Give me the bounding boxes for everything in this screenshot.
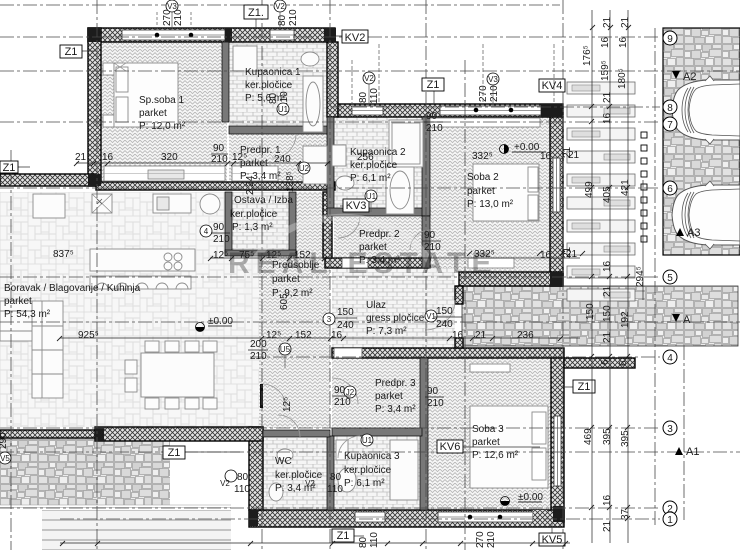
svg-text:270: 270 <box>475 531 486 548</box>
svg-text:4: 4 <box>667 353 673 364</box>
svg-text:Z1: Z1 <box>427 79 440 91</box>
svg-text:90: 90 <box>213 143 225 154</box>
svg-text:395: 395 <box>602 428 613 445</box>
svg-text:294⁵: 294⁵ <box>635 266 646 287</box>
svg-text:80: 80 <box>358 91 369 103</box>
svg-text:P: 12,6 m²: P: 12,6 m² <box>472 450 519 461</box>
svg-text:320: 320 <box>161 152 178 163</box>
svg-text:parket: parket <box>4 296 32 307</box>
svg-text:210: 210 <box>426 123 443 134</box>
svg-text:21: 21 <box>75 152 87 163</box>
svg-text:110: 110 <box>369 88 380 104</box>
svg-text:ker.pločice: ker.pločice <box>275 470 323 481</box>
svg-text:90: 90 <box>424 230 436 241</box>
svg-text:210: 210 <box>250 351 267 362</box>
svg-text:7: 7 <box>667 120 673 131</box>
svg-text:8: 8 <box>667 103 673 114</box>
svg-text:V2: V2 <box>364 74 374 83</box>
svg-text:469: 469 <box>583 428 594 445</box>
svg-text:6: 6 <box>667 184 673 195</box>
svg-text:605: 605 <box>279 293 290 310</box>
svg-text:ker.pločice: ker.pločice <box>344 465 392 476</box>
svg-text:Soba 2: Soba 2 <box>467 172 499 183</box>
svg-text:80: 80 <box>358 536 369 548</box>
svg-text:KV2: KV2 <box>345 32 366 44</box>
svg-text:6: 6 <box>618 360 629 366</box>
svg-text:152: 152 <box>295 330 312 341</box>
svg-text:16: 16 <box>602 112 613 124</box>
svg-text:3: 3 <box>667 424 673 435</box>
svg-text:12⁵: 12⁵ <box>282 397 293 412</box>
svg-text:210: 210 <box>213 234 230 245</box>
svg-text:A: A <box>683 314 691 326</box>
svg-text:837⁵: 837⁵ <box>53 249 74 260</box>
svg-text:12⁵: 12⁵ <box>266 250 281 261</box>
svg-text:Predpr. 2: Predpr. 2 <box>359 229 400 240</box>
svg-text:332⁵: 332⁵ <box>472 151 493 162</box>
svg-text:90: 90 <box>427 386 439 397</box>
svg-text:Z1: Z1 <box>578 381 591 393</box>
svg-text:A2: A2 <box>683 71 696 83</box>
svg-text:U1: U1 <box>362 436 373 445</box>
svg-text:75⁵: 75⁵ <box>239 250 254 261</box>
svg-text:80: 80 <box>237 472 249 483</box>
svg-text:240: 240 <box>436 319 453 330</box>
svg-text:80: 80 <box>277 14 288 26</box>
svg-text:240: 240 <box>274 154 291 165</box>
svg-text:21: 21 <box>602 331 613 343</box>
svg-text:270: 270 <box>478 85 489 102</box>
svg-text:+0.00: +0.00 <box>514 142 540 153</box>
svg-text:Z1: Z1 <box>168 447 181 459</box>
svg-text:5: 5 <box>667 273 673 284</box>
svg-text:±0.00: ±0.00 <box>518 492 543 503</box>
svg-text:16: 16 <box>602 494 613 506</box>
svg-text:925⁵: 925⁵ <box>78 330 99 341</box>
svg-text:90: 90 <box>426 111 438 122</box>
svg-text:P: 3,4 m²: P: 3,4 m² <box>359 255 400 266</box>
svg-text:V2: V2 <box>305 479 315 488</box>
svg-text:16: 16 <box>600 36 611 48</box>
svg-text:12⁵: 12⁵ <box>232 152 247 163</box>
svg-text:290: 290 <box>0 432 9 449</box>
svg-text:210: 210 <box>424 242 441 253</box>
svg-text:P: 13,0 m²: P: 13,0 m² <box>467 199 514 210</box>
svg-text:110: 110 <box>369 532 380 548</box>
svg-text:150: 150 <box>585 303 596 320</box>
svg-text:Predsoblje: Predsoblje <box>272 260 320 271</box>
svg-text:256: 256 <box>357 152 374 163</box>
svg-text:U1: U1 <box>278 105 289 114</box>
svg-text:Ostava / Izba: Ostava / Izba <box>234 195 293 206</box>
svg-text:P: 54,3 m²: P: 54,3 m² <box>4 309 51 320</box>
svg-text:16: 16 <box>102 152 114 163</box>
svg-text:WC: WC <box>275 456 292 467</box>
svg-text:Z1: Z1 <box>337 530 350 542</box>
svg-text:P: 1,3 m²: P: 1,3 m² <box>232 222 273 233</box>
svg-text:4: 4 <box>204 227 209 236</box>
svg-text:Kupaonica 1: Kupaonica 1 <box>245 67 301 78</box>
svg-text:16: 16 <box>540 151 552 162</box>
svg-text:V3: V3 <box>167 2 177 11</box>
svg-text:P: 12,0 m²: P: 12,0 m² <box>139 121 186 132</box>
svg-text:V5: V5 <box>0 454 10 463</box>
svg-text:150: 150 <box>602 305 613 322</box>
svg-text:V1: V1 <box>426 312 436 321</box>
svg-text:3: 3 <box>327 315 332 324</box>
svg-text:150: 150 <box>436 306 453 317</box>
svg-text:21: 21 <box>602 91 613 103</box>
svg-text:152: 152 <box>294 250 311 261</box>
svg-text:parket: parket <box>375 391 403 402</box>
svg-text:12⁵: 12⁵ <box>266 330 281 341</box>
svg-text:210: 210 <box>489 85 500 102</box>
svg-text:240: 240 <box>337 320 354 331</box>
svg-text:12⁵: 12⁵ <box>213 250 228 261</box>
svg-text:parket: parket <box>472 437 500 448</box>
svg-text:Z1.: Z1. <box>248 7 264 19</box>
svg-text:2,24: 2,24 <box>245 175 256 195</box>
svg-text:P: 7,3 m²: P: 7,3 m² <box>366 326 407 337</box>
svg-text:Kupaonica 3: Kupaonica 3 <box>344 451 400 462</box>
svg-text:21: 21 <box>602 285 613 297</box>
svg-text:80: 80 <box>330 472 342 483</box>
svg-text:2: 2 <box>667 504 673 515</box>
svg-text:A3: A3 <box>687 227 700 239</box>
svg-text:90: 90 <box>213 222 225 233</box>
svg-text:P: 3,4 m²: P: 3,4 m² <box>375 404 416 415</box>
svg-text:9: 9 <box>667 34 673 45</box>
svg-text:Z1: Z1 <box>65 46 78 58</box>
svg-text:P: 6,1 m²: P: 6,1 m² <box>350 173 391 184</box>
svg-text:395: 395 <box>620 430 631 447</box>
svg-text:16: 16 <box>331 330 343 341</box>
svg-text:210: 210 <box>486 531 497 548</box>
svg-text:KV3: KV3 <box>346 200 367 212</box>
svg-text:180⁵: 180⁵ <box>617 68 628 89</box>
svg-text:110: 110 <box>234 484 250 495</box>
svg-text:±0.00: ±0.00 <box>208 316 233 327</box>
svg-text:332⁵: 332⁵ <box>474 249 495 260</box>
svg-text:ker.pločice: ker.pločice <box>230 209 278 220</box>
svg-text:1: 1 <box>667 515 673 526</box>
svg-text:parket: parket <box>272 274 300 285</box>
svg-text:U5: U5 <box>280 345 291 354</box>
svg-text:Ulaz: Ulaz <box>366 300 386 311</box>
svg-text:V2: V2 <box>275 2 285 11</box>
svg-text:37: 37 <box>620 508 631 520</box>
svg-text:Sp.soba 1: Sp.soba 1 <box>139 95 184 106</box>
svg-text:21: 21 <box>602 520 613 532</box>
svg-text:V3: V3 <box>488 75 498 84</box>
svg-text:Predpr. 3: Predpr. 3 <box>375 378 416 389</box>
svg-text:ker.pločice: ker.pločice <box>245 80 293 91</box>
svg-text:P: 6,1 m²: P: 6,1 m² <box>344 478 385 489</box>
svg-text:421: 421 <box>620 179 631 196</box>
svg-text:110: 110 <box>327 484 343 495</box>
svg-text:parket: parket <box>359 242 387 253</box>
svg-text:6: 6 <box>600 359 611 365</box>
svg-text:200: 200 <box>250 339 267 350</box>
svg-text:Boravak / Blagovanje / Kuhinja: Boravak / Blagovanje / Kuhinja <box>4 283 141 294</box>
svg-text:parket: parket <box>467 186 495 197</box>
svg-text:210: 210 <box>334 397 351 408</box>
svg-text:A1: A1 <box>686 446 699 458</box>
svg-text:210: 210 <box>427 398 444 409</box>
svg-text:V2: V2 <box>220 479 230 488</box>
svg-text:Z1: Z1 <box>3 162 16 174</box>
svg-text:16: 16 <box>452 330 464 341</box>
svg-text:21: 21 <box>562 146 573 158</box>
svg-text:210: 210 <box>211 154 228 165</box>
svg-text:Soba 3: Soba 3 <box>472 424 504 435</box>
svg-text:16: 16 <box>618 36 629 48</box>
svg-text:gress pločice: gress pločice <box>366 313 425 324</box>
svg-text:236: 236 <box>517 330 534 341</box>
svg-text:KV6: KV6 <box>440 441 461 453</box>
svg-text:210: 210 <box>288 9 299 26</box>
svg-text:16: 16 <box>602 260 613 272</box>
svg-text:parket: parket <box>139 108 167 119</box>
svg-text:21: 21 <box>475 330 487 341</box>
svg-text:405: 405 <box>602 186 613 203</box>
svg-text:U1: U1 <box>366 192 377 201</box>
svg-text:80: 80 <box>268 92 279 104</box>
svg-text:KV5: KV5 <box>542 534 563 546</box>
svg-text:192: 192 <box>620 311 631 328</box>
svg-text:U2: U2 <box>299 164 310 173</box>
svg-text:159⁵: 159⁵ <box>600 60 611 81</box>
svg-text:176⁵: 176⁵ <box>582 45 593 66</box>
svg-text:150: 150 <box>337 307 354 318</box>
svg-text:KV4: KV4 <box>542 80 563 92</box>
svg-text:138⁵: 138⁵ <box>285 171 296 192</box>
